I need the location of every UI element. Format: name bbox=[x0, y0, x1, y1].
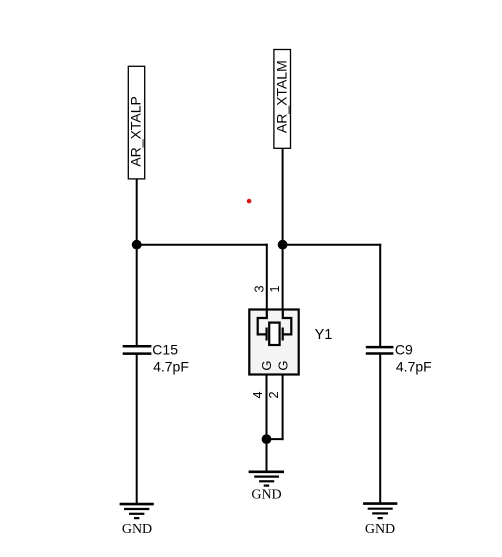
wire right junction to C9 (horizontal) bbox=[283, 244, 382, 246]
pin label G (right) bbox=[276, 361, 291, 371]
wire down to C9 top bbox=[379, 244, 381, 347]
junction right bbox=[278, 240, 288, 250]
wire pin 2 jog to junction bbox=[267, 438, 284, 440]
svg-text:GND: GND bbox=[365, 522, 395, 537]
red marker dot bbox=[247, 199, 252, 204]
crystal plate bbox=[269, 323, 279, 345]
svg-text:AR_XTALP: AR_XTALP bbox=[128, 96, 144, 167]
svg-text:C15: C15 bbox=[152, 341, 178, 357]
ground (right) bbox=[363, 504, 397, 537]
svg-text:Y1: Y1 bbox=[315, 327, 333, 343]
svg-text:4.7pF: 4.7pF bbox=[396, 359, 432, 375]
svg-text:AR_XTALM: AR_XTALM bbox=[274, 60, 290, 133]
ground (middle) bbox=[249, 472, 284, 503]
svg-text:C9: C9 bbox=[395, 341, 413, 357]
ground (left) bbox=[120, 504, 154, 537]
wire crystal pin 2 vertical bbox=[282, 375, 284, 441]
svg-text:4.7pF: 4.7pF bbox=[153, 359, 189, 375]
capacitor C15 bbox=[123, 346, 152, 353]
wire left junction to crystal pin 3 (horizontal) bbox=[137, 244, 268, 246]
pin label G (left) bbox=[259, 361, 274, 371]
wire crystal pin 3 vertical drop bbox=[266, 244, 268, 310]
wire AR_XTALP to C15 top bbox=[136, 179, 138, 346]
pin number 2 bbox=[267, 391, 281, 398]
wire AR_XTALM to crystal pin 1 bbox=[282, 148, 284, 309]
svg-text:2: 2 bbox=[267, 391, 281, 398]
junction left bbox=[132, 240, 142, 250]
left electrode lead bracket bbox=[258, 310, 267, 335]
svg-text:GND: GND bbox=[251, 488, 281, 503]
right electrode lead bracket bbox=[283, 310, 292, 335]
crystal Y1 bbox=[249, 310, 298, 375]
net label AR_XTALM bbox=[274, 50, 291, 149]
svg-text:4: 4 bbox=[251, 391, 265, 398]
svg-text:3: 3 bbox=[252, 285, 266, 292]
net label AR_XTALP bbox=[128, 66, 145, 179]
wire C9 bottom to right ground bbox=[379, 354, 381, 504]
svg-text:1: 1 bbox=[268, 285, 282, 292]
junction crystal ground bbox=[262, 434, 272, 444]
pin number 1 bbox=[268, 285, 282, 292]
svg-text:G: G bbox=[259, 361, 274, 371]
pin number 4 bbox=[251, 391, 265, 398]
svg-text:GND: GND bbox=[122, 522, 152, 537]
wire crystal pin 4 to middle ground bbox=[266, 375, 268, 472]
capacitor C9 bbox=[366, 347, 394, 353]
right electrode bbox=[282, 328, 284, 341]
wire C15 bottom to left ground bbox=[136, 353, 138, 504]
left electrode bbox=[266, 328, 268, 341]
svg-text:G: G bbox=[276, 361, 291, 371]
pin number 3 bbox=[252, 285, 266, 292]
